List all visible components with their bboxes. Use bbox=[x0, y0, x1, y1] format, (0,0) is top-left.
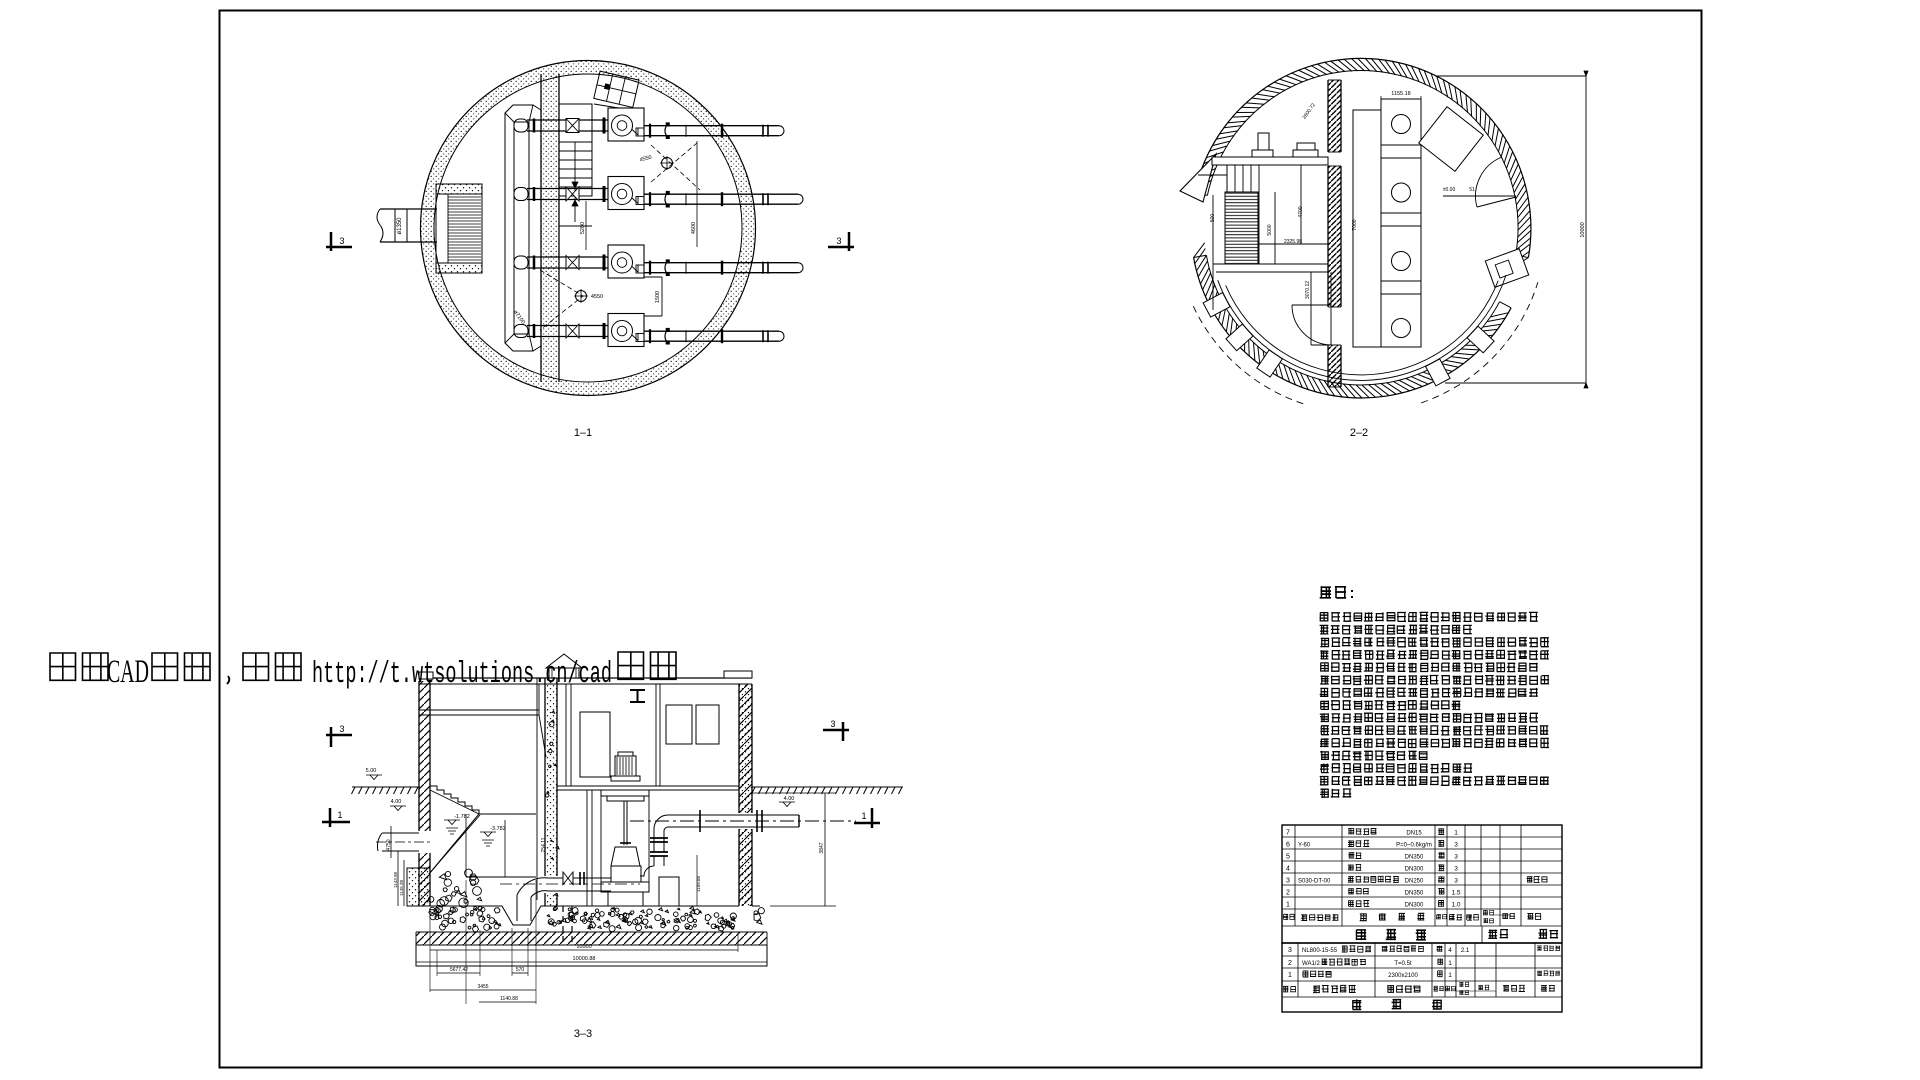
svg-text:5677.42: 5677.42 bbox=[450, 967, 468, 973]
2-2 ring block at 317deg bbox=[1467, 326, 1494, 353]
svg-text:3847: 3847 bbox=[819, 842, 825, 853]
svg-text:3: 3 bbox=[836, 236, 841, 246]
3-3 right dimension bbox=[696, 793, 836, 906]
svg-text:CAD: CAD bbox=[107, 654, 149, 690]
svg-text:7000: 7000 bbox=[1352, 219, 1358, 230]
3-3 ground line right bbox=[752, 787, 904, 794]
1-1 dimension lines bbox=[512, 141, 697, 326]
svg-text:1155.18: 1155.18 bbox=[1391, 91, 1410, 97]
svg-text:DN250: DN250 bbox=[1405, 879, 1424, 885]
svg-text:3: 3 bbox=[830, 719, 835, 729]
1-1 discharge pipe 3 bbox=[644, 260, 803, 276]
3-3 suction pipe bbox=[500, 872, 640, 921]
svg-text:DN300: DN300 bbox=[1405, 903, 1424, 909]
notes text block bbox=[1320, 586, 1550, 797]
2-2 tilted floor plate bbox=[1419, 107, 1484, 172]
svg-text:5.00: 5.00 bbox=[366, 768, 377, 774]
1-1 discharge pipe 4 bbox=[644, 328, 784, 344]
1-1 tunnel lining ring (stippled) bbox=[421, 60, 756, 395]
1-1 pump P1 bbox=[608, 108, 644, 141]
svg-text:P=0~0.6kg/m: P=0~0.6kg/m bbox=[1396, 843, 1432, 849]
svg-text:1: 1 bbox=[1286, 902, 1290, 909]
2-2 inner walkway arcs bbox=[1218, 275, 1506, 380]
svg-text:5200: 5200 bbox=[580, 222, 586, 234]
svg-text:http://t.wtsolutions.cn/cad: http://t.wtsolutions.cn/cad bbox=[312, 657, 612, 692]
1-1 davit symbol upper bbox=[639, 143, 700, 190]
svg-text:2.1: 2.1 bbox=[1461, 948, 1470, 954]
1-1 suction pipe 3 bbox=[514, 255, 608, 271]
svg-text:2: 2 bbox=[1286, 890, 1290, 897]
2-2 ring block at 236deg bbox=[1257, 350, 1283, 377]
svg-text:1: 1 bbox=[1288, 972, 1292, 979]
svg-text:4750: 4750 bbox=[386, 839, 392, 850]
2-2 overall dim 10000 bbox=[1435, 71, 1588, 388]
svg-text:DN300: DN300 bbox=[1405, 867, 1424, 873]
svg-text:1.0: 1.0 bbox=[1451, 902, 1460, 909]
svg-text:DN350: DN350 bbox=[1405, 891, 1424, 897]
1-1 interior dividing wall bbox=[541, 72, 559, 384]
detail table bbox=[1282, 825, 1562, 943]
2-2 entrance arrow bbox=[1180, 154, 1216, 202]
svg-text:2300x2100: 2300x2100 bbox=[1388, 973, 1418, 979]
3-3 pump house interior bbox=[557, 684, 739, 882]
2-2 pump hall with 4 pumps bbox=[1353, 91, 1421, 347]
svg-text:4.00: 4.00 bbox=[391, 799, 402, 805]
3-3 roof slabs bbox=[419, 671, 752, 757]
2-2 interior dividing wall bbox=[1328, 80, 1341, 387]
svg-text:1: 1 bbox=[337, 810, 342, 820]
3-3 right exterior wall bbox=[739, 684, 752, 906]
1-1 tilted entrance hatch bbox=[594, 71, 639, 110]
svg-text:1: 1 bbox=[1448, 972, 1452, 979]
svg-text:1.5: 1.5 bbox=[1451, 890, 1460, 897]
svg-text:3: 3 bbox=[339, 236, 344, 246]
1-1 section marker 3 left bbox=[326, 232, 352, 251]
watermark text bbox=[50, 652, 676, 692]
svg-text:2–2: 2–2 bbox=[1350, 427, 1368, 439]
3-3 vertical pump unit bbox=[601, 752, 649, 906]
svg-text:DN350: DN350 bbox=[1405, 855, 1424, 861]
svg-text:3: 3 bbox=[1454, 878, 1458, 885]
svg-text:4700: 4700 bbox=[1298, 206, 1304, 217]
svg-text:10000: 10000 bbox=[1580, 222, 1586, 237]
1-1 suction pipe 4 bbox=[514, 323, 608, 339]
1-1 davit symbol lower bbox=[540, 270, 603, 330]
1-1 bar screen grate bbox=[436, 184, 482, 273]
1-1 suction pipe 2 bbox=[514, 186, 608, 202]
1-1 pump P3 bbox=[608, 245, 644, 278]
1-1 section marker 3 right bbox=[828, 232, 854, 251]
2-2 right tilted block bbox=[1485, 249, 1528, 288]
2-2 dashed clearance arc bottom-left bbox=[1193, 306, 1304, 404]
svg-text:3: 3 bbox=[1286, 878, 1290, 885]
svg-text:T=0.5t: T=0.5t bbox=[1394, 961, 1412, 967]
2-2 ring block at 222deg bbox=[1226, 324, 1253, 351]
3-3 bottom dimensions bbox=[416, 880, 767, 1004]
svg-text:4: 4 bbox=[1448, 947, 1452, 954]
svg-text:3: 3 bbox=[339, 724, 344, 734]
svg-text:-3.782: -3.782 bbox=[490, 826, 506, 832]
1-1 pump P4 bbox=[608, 314, 644, 347]
equipment table bbox=[1282, 943, 1562, 1012]
1-1 suction sump tank bbox=[505, 105, 541, 351]
svg-text:3: 3 bbox=[1288, 947, 1292, 954]
svg-text:4600: 4600 bbox=[691, 222, 697, 234]
3-3 center dividing wall bbox=[537, 678, 559, 906]
2-2 ring block at 208deg bbox=[1203, 293, 1230, 317]
1-1 discharge pipe 2 bbox=[644, 191, 803, 207]
svg-text:3: 3 bbox=[1454, 854, 1458, 861]
2-2 right door bbox=[1443, 157, 1516, 207]
svg-text:4: 4 bbox=[1286, 866, 1290, 873]
svg-text:10000: 10000 bbox=[576, 944, 591, 950]
drawing frame border bbox=[220, 11, 1702, 1068]
3-3 marker 1 right bbox=[854, 808, 880, 828]
svg-text:500: 500 bbox=[1210, 214, 1216, 223]
2-2 dashed clearance arc bottom-right bbox=[1421, 282, 1538, 403]
svg-text:NL800-15-55: NL800-15-55 bbox=[1302, 948, 1338, 954]
svg-text:2325.98: 2325.98 bbox=[1284, 239, 1302, 245]
svg-text:WA1/2: WA1/2 bbox=[1302, 961, 1320, 967]
3-3 marker 1 left bbox=[322, 808, 350, 827]
3-3 stairs and slope bbox=[429, 786, 536, 877]
1-1 suction pipe 1 bbox=[514, 118, 608, 134]
svg-text:1: 1 bbox=[1454, 830, 1458, 837]
3-3 ground line left bbox=[352, 787, 420, 794]
2-2 tunnel lining ring (hatched) bbox=[1194, 58, 1531, 398]
svg-text:-1.782: -1.782 bbox=[454, 814, 470, 820]
3-3 level markers bbox=[366, 768, 795, 852]
2-2 top slab and hatches bbox=[1212, 133, 1328, 165]
3-3 roof vent cap bbox=[546, 654, 582, 678]
3-3 foundation band bbox=[416, 906, 767, 946]
svg-text:1: 1 bbox=[1448, 960, 1452, 967]
svg-text:4550: 4550 bbox=[591, 294, 603, 300]
svg-text:Y-60: Y-60 bbox=[1298, 843, 1311, 849]
svg-text:1500: 1500 bbox=[655, 291, 661, 303]
3-3 left exterior wall bbox=[407, 681, 430, 906]
svg-text:570: 570 bbox=[516, 967, 525, 973]
2-2 ring block at 298deg bbox=[1426, 359, 1450, 386]
svg-text:7: 7 bbox=[1286, 830, 1290, 837]
svg-text:ø1350: ø1350 bbox=[397, 217, 403, 235]
3-3 inlet pipe left bbox=[376, 826, 431, 906]
2-2 stair block bbox=[1213, 165, 1328, 310]
3-3 riser column bbox=[659, 877, 679, 906]
3-3 marker 3 left bbox=[326, 727, 352, 747]
1-1 discharge pipe 1 bbox=[644, 123, 784, 139]
svg-text:1: 1 bbox=[861, 811, 866, 821]
svg-text:10000.88: 10000.88 bbox=[573, 956, 596, 962]
svg-text:754.11: 754.11 bbox=[541, 837, 547, 852]
svg-text:DN15: DN15 bbox=[1406, 831, 1422, 837]
svg-text:3: 3 bbox=[1454, 866, 1458, 873]
2-2 dim labels bbox=[1210, 102, 1358, 299]
svg-text:5000: 5000 bbox=[1267, 224, 1273, 235]
3-3 dashed anchor bbox=[562, 906, 564, 944]
svg-text:1143.98: 1143.98 bbox=[393, 872, 398, 888]
1-1 staircase bbox=[559, 104, 592, 226]
svg-text:1–1: 1–1 bbox=[574, 427, 592, 439]
1-1 inlet pipe o1350 bbox=[377, 209, 437, 242]
svg-text:1140.88: 1140.88 bbox=[500, 996, 518, 1002]
svg-text:1145.38: 1145.38 bbox=[399, 880, 404, 896]
svg-text:5: 5 bbox=[1286, 854, 1290, 861]
svg-text:2: 2 bbox=[1288, 960, 1292, 967]
svg-text:3: 3 bbox=[1454, 842, 1458, 849]
3-3 foundation pad bbox=[416, 945, 767, 966]
svg-text:4.00: 4.00 bbox=[784, 796, 795, 802]
3-3 discharge pipe bbox=[630, 810, 856, 876]
svg-text:51: 51 bbox=[1469, 187, 1475, 193]
svg-text:1109.88: 1109.88 bbox=[696, 876, 701, 892]
svg-text:±0.00: ±0.00 bbox=[1443, 187, 1456, 193]
1-1 pump P2 bbox=[608, 177, 644, 210]
2-2 lower corridor and door bbox=[1292, 272, 1331, 345]
svg-text:6: 6 bbox=[1286, 842, 1290, 849]
svg-text:3455: 3455 bbox=[477, 984, 488, 990]
svg-text:3070.12: 3070.12 bbox=[1305, 281, 1311, 299]
3-3 rock pile bbox=[460, 892, 467, 897]
svg-text:3–3: 3–3 bbox=[574, 1028, 592, 1040]
svg-text:S030-DT-00: S030-DT-00 bbox=[1298, 879, 1331, 885]
3-3 marker 3 right bbox=[823, 722, 849, 741]
3-3 column lines bbox=[586, 790, 588, 906]
